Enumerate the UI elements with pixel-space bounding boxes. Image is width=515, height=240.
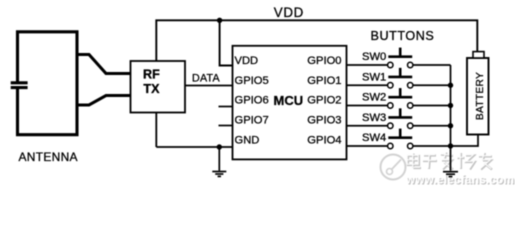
- svg-text:SW2: SW2: [362, 92, 386, 104]
- svg-text:VDD: VDD: [235, 55, 259, 67]
- svg-text:GPIO2: GPIO2: [307, 95, 341, 107]
- svg-text:BATTERY: BATTERY: [475, 72, 486, 120]
- svg-text:www.elecfans.com: www.elecfans.com: [405, 172, 514, 186]
- svg-text:MCU: MCU: [274, 93, 304, 108]
- svg-text:SW4: SW4: [362, 132, 386, 144]
- svg-text:BUTTONS: BUTTONS: [371, 29, 435, 43]
- svg-text:GPIO1: GPIO1: [307, 75, 341, 87]
- svg-text:GPIO5: GPIO5: [235, 75, 269, 87]
- svg-text:SW0: SW0: [362, 51, 386, 63]
- svg-text:GPIO4: GPIO4: [307, 135, 341, 147]
- svg-text:GPIO0: GPIO0: [307, 55, 341, 67]
- svg-text:DATA: DATA: [192, 72, 221, 84]
- svg-text:GND: GND: [235, 135, 260, 147]
- svg-text:GPIO6: GPIO6: [235, 95, 269, 107]
- svg-text:VDD: VDD: [274, 5, 304, 20]
- svg-text:SW3: SW3: [362, 112, 386, 124]
- svg-text:GPIO3: GPIO3: [307, 115, 341, 127]
- svg-text:GPIO7: GPIO7: [235, 115, 269, 127]
- svg-text:ANTENNA: ANTENNA: [19, 150, 78, 164]
- svg-text:SW1: SW1: [362, 71, 386, 83]
- svg-text:RF: RF: [143, 68, 160, 82]
- svg-text:TX: TX: [143, 82, 160, 96]
